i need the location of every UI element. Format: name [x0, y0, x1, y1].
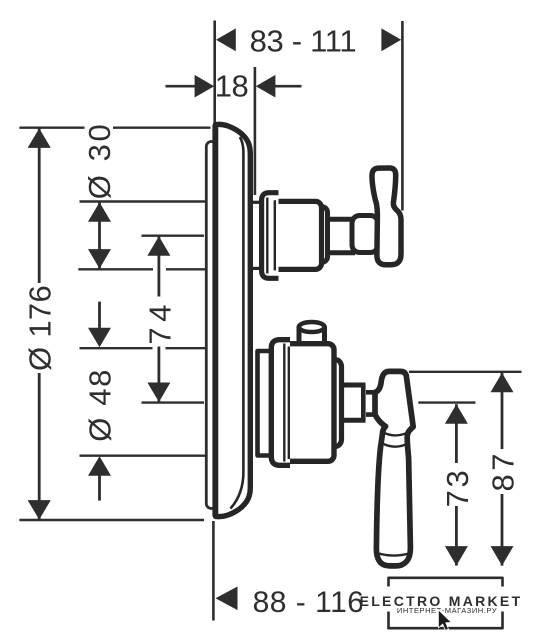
- arrow pointing right at x=214 (dim 18): [195, 75, 215, 98]
- dim line 74: [157, 236, 160, 296]
- svg-text:88 - 116: 88 - 116: [253, 586, 365, 619]
- escutcheon plate back edge: [212, 125, 218, 517]
- svg-text:Ø 30: Ø 30: [82, 122, 117, 200]
- lower valve neck: [363, 392, 376, 414]
- watermark box: [389, 578, 503, 628]
- arrow up 87: [491, 373, 514, 393]
- arrow down 87: [491, 546, 514, 566]
- lever handle hub and lever: [375, 371, 413, 566]
- upper handle collar: [352, 216, 378, 253]
- lower valve stem: [336, 383, 366, 423]
- lever ring arc 1: [383, 432, 407, 435]
- extension line 87 top (handle top): [409, 371, 522, 373]
- arrow down dia30: [88, 249, 111, 269]
- lower cylinder left edge contour: [288, 347, 290, 460]
- lower valve flange ring: [271, 340, 290, 466]
- upper valve cap ring: [316, 207, 328, 262]
- lower valve top stub cylinder: [299, 327, 325, 346]
- svg-text:83 - 111: 83 - 111: [250, 23, 357, 58]
- extension line left of 83-111 (wall, top): [213, 21, 216, 124]
- arrow up dia176: [28, 128, 51, 148]
- svg-text:Ø 176: Ø 176: [23, 285, 58, 371]
- lower valve cylinder: [281, 344, 334, 462]
- upper cross-handle (side view): [372, 168, 401, 265]
- extension line dia30 bottom: [78, 268, 153, 270]
- extension line 73 top (lever axis right): [418, 401, 475, 403]
- upper valve base ring: [252, 201, 260, 204]
- extension line 74 bottom / lever axis left: [142, 401, 205, 403]
- arrow up 73: [445, 404, 468, 424]
- upper valve stem: [325, 217, 355, 255]
- arrow up 74: [147, 236, 170, 256]
- dim 18 left lead line: [166, 85, 197, 88]
- extension line x=255 (plate front): [254, 67, 257, 195]
- bell contour line 2: [274, 200, 276, 270]
- arrow down dia176: [28, 500, 51, 519]
- extension line 74 top: [142, 234, 205, 236]
- dim line 87: [501, 373, 504, 449]
- arrow up dia30: [88, 202, 111, 222]
- lower valve cap ring: [330, 360, 342, 447]
- extension line dia48 bottom: [80, 455, 206, 457]
- svg-text:Ø 48: Ø 48: [83, 368, 118, 442]
- extension line bottom wall (below plate): [212, 521, 215, 621]
- svg-text:73: 73: [440, 468, 475, 508]
- arrow down dia48 (outside above): [88, 328, 111, 348]
- arrow right of dim 83-111: [381, 28, 401, 51]
- dia48 bottom arrow shaft: [98, 472, 101, 501]
- upper valve bell flange: [262, 193, 279, 279]
- upper valve cylinder: [272, 201, 322, 269]
- arrow pointing left at x=256 (dim 18): [256, 75, 276, 98]
- arrow down 73: [445, 546, 468, 566]
- dim line dia30: [98, 202, 101, 268]
- plate inner front contour: [231, 137, 244, 509]
- arrow down 74: [147, 383, 170, 403]
- lever ring arc 2: [382, 443, 407, 446]
- svg-text:74: 74: [142, 299, 177, 344]
- lower valve top stub face ellipse: [299, 322, 325, 332]
- arrow left of dim 88-116: [216, 587, 238, 611]
- arrow up dia48 (outside below): [88, 456, 111, 476]
- lower flange contour line: [283, 344, 285, 462]
- svg-text:87: 87: [485, 450, 520, 491]
- watermark text halo: [362, 587, 522, 612]
- dia48 top arrow shaft: [98, 302, 101, 332]
- dim 18 right lead line: [275, 85, 302, 88]
- extension line dia30 top: [80, 200, 207, 202]
- extension line top of dia176: [19, 126, 84, 128]
- arrow left of dim 83-111: [216, 28, 236, 51]
- bell contour line 1: [266, 198, 268, 274]
- svg-text:ИНТЕРНЕТ-МАГАЗИН.РУ: ИНТЕРНЕТ-МАГАЗИН.РУ: [397, 606, 497, 615]
- dim line dia176: [38, 128, 41, 283]
- back rim behind plate: [206, 142, 216, 509]
- mouse cursor: [438, 610, 451, 631]
- svg-text:18: 18: [215, 69, 248, 104]
- extension line bottom of dia176: [19, 519, 204, 521]
- extension line right of 83-111 (handle tip): [401, 21, 404, 211]
- lower valve base ring: [258, 351, 274, 456]
- extension line dia48 top: [80, 347, 153, 349]
- escutcheon plate outline: [216, 124, 251, 516]
- dim line 73: [455, 404, 458, 463]
- lever cap line: [377, 553, 411, 556]
